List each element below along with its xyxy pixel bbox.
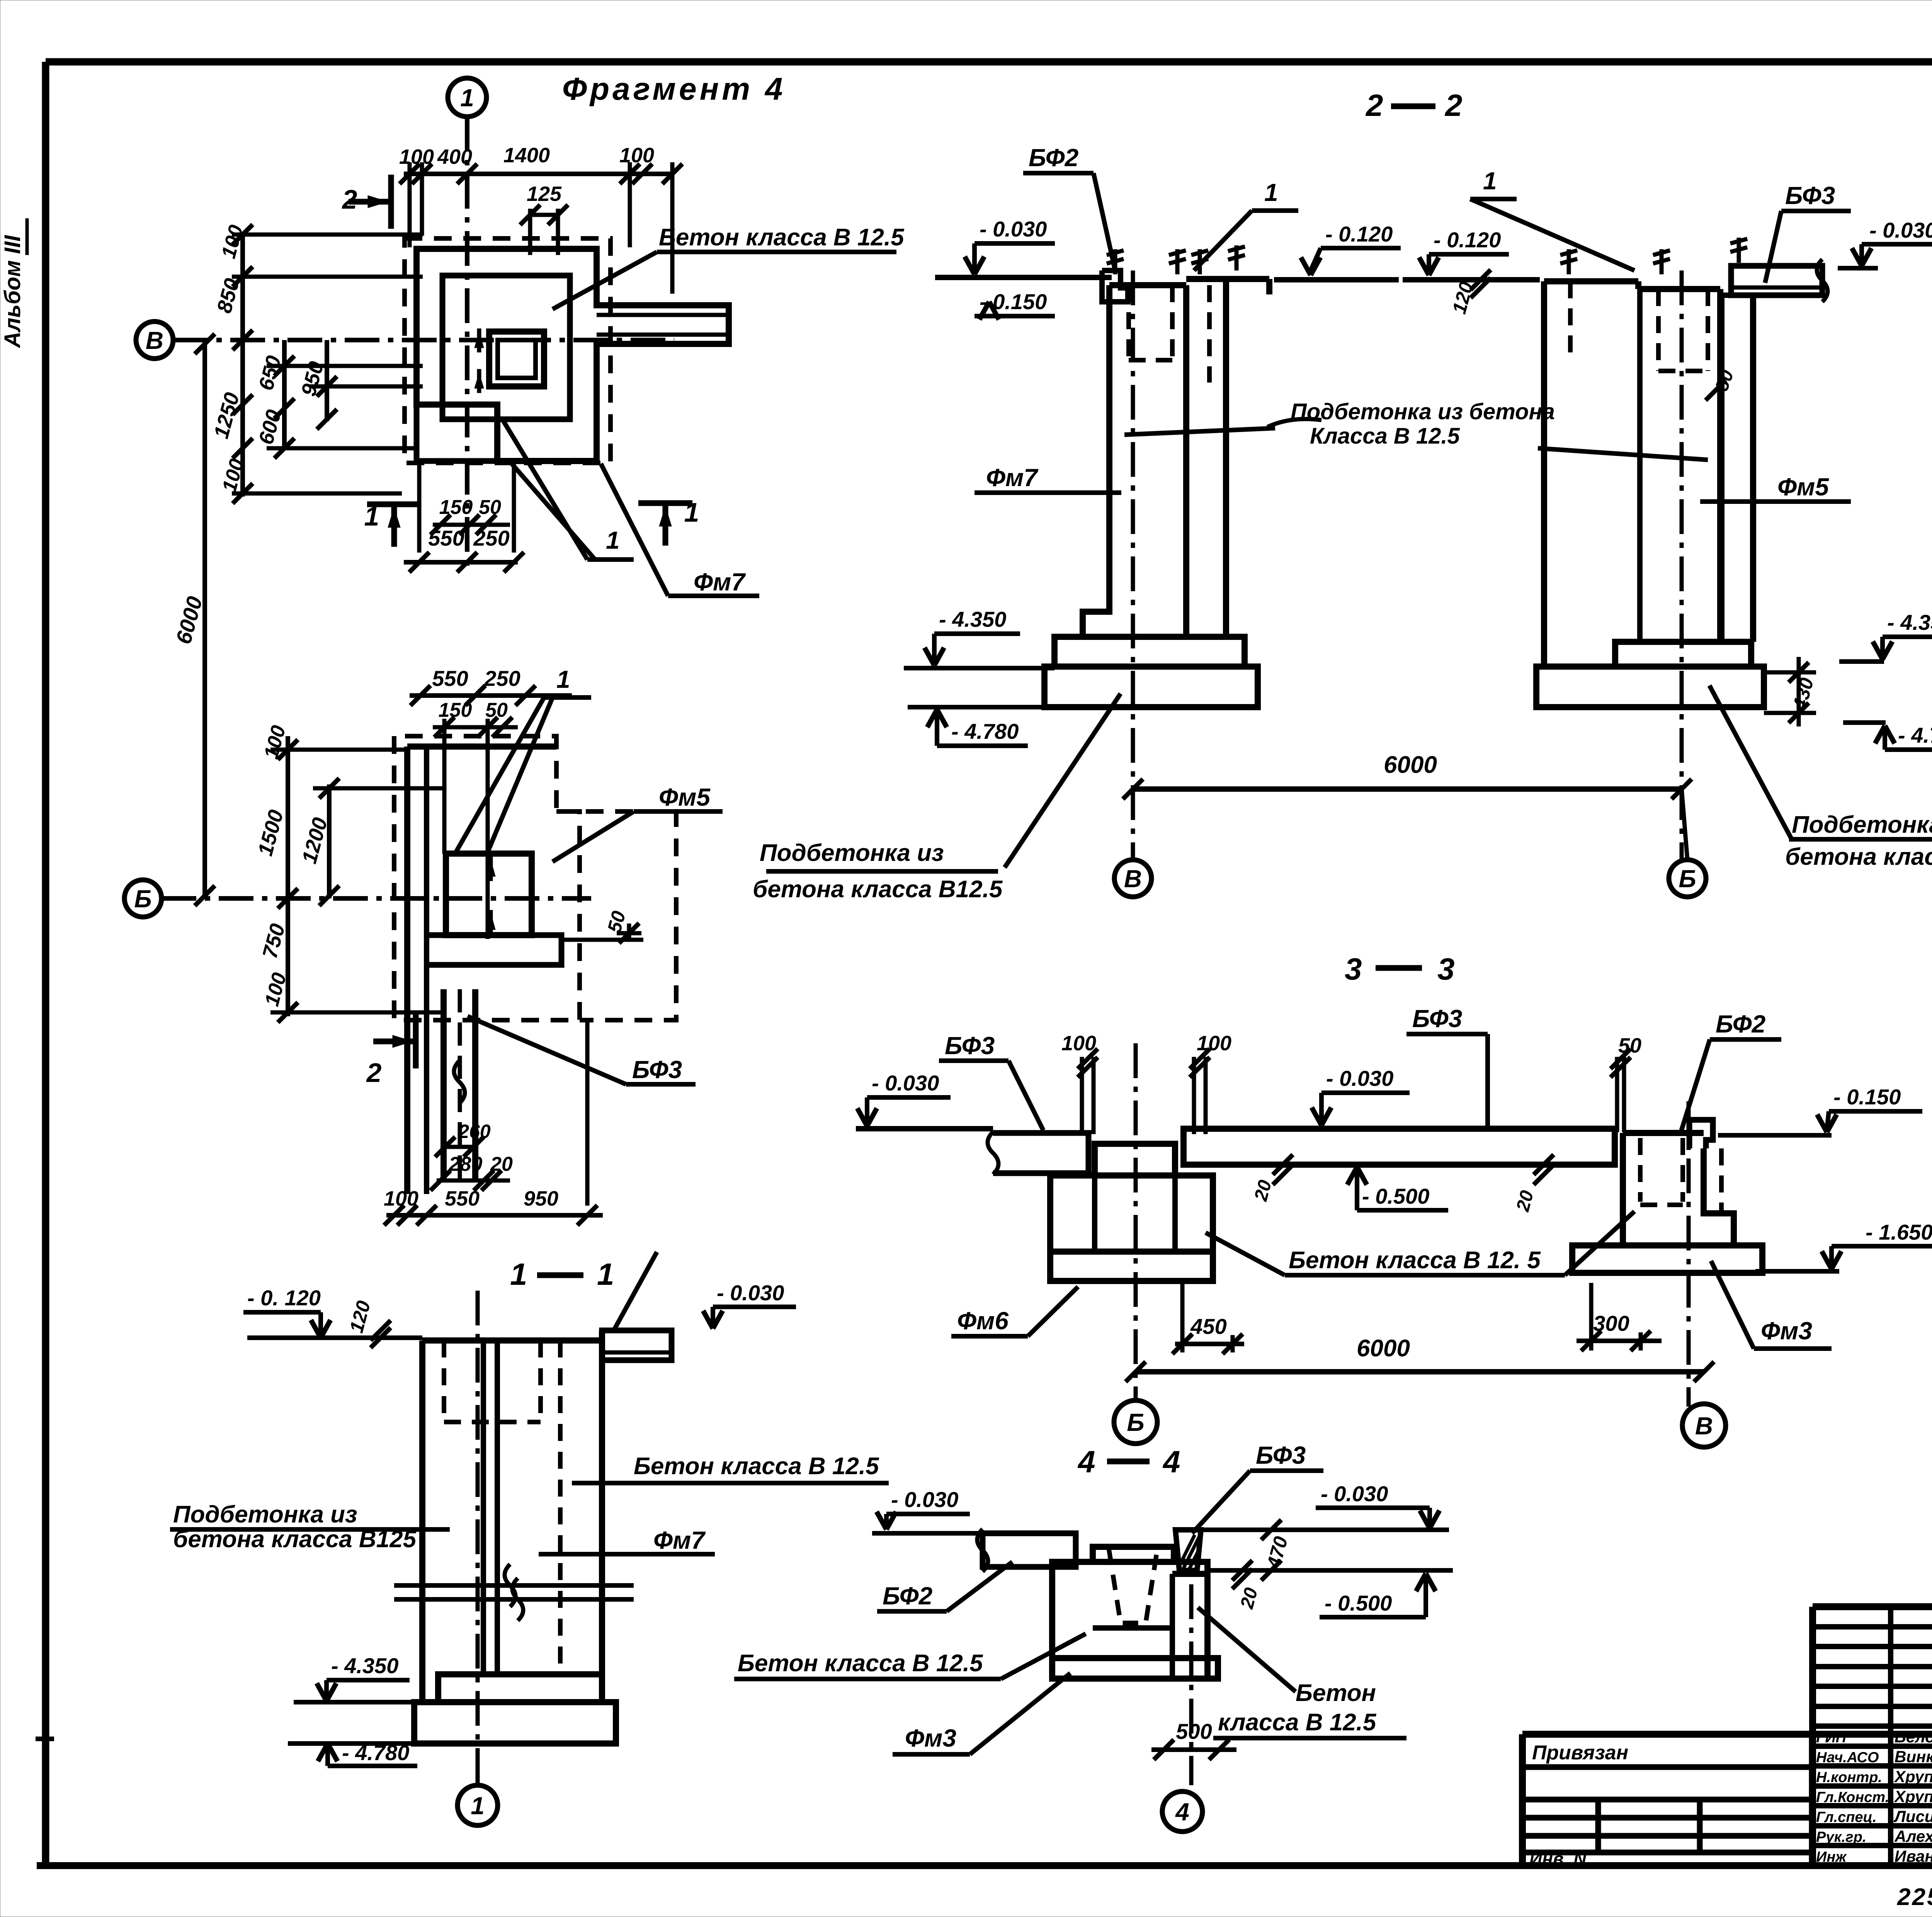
inner rect Fm7 (442, 276, 570, 419)
svg-text:150: 150 (439, 496, 473, 519)
svg-text:БФ2: БФ2 (1716, 1010, 1765, 1038)
svg-text:- 1.650: - 1.650 (1866, 1220, 1932, 1244)
svg-text:1: 1 (606, 526, 620, 554)
svg-text:Инв. N: Инв. N (1529, 1849, 1587, 1869)
svg-text:Н.контр.: Н.контр. (1816, 1769, 1882, 1786)
svg-text:Б: Б (1127, 1408, 1144, 1436)
axis circle V bottom 2-2 (1114, 860, 1151, 897)
svg-text:250: 250 (473, 526, 509, 550)
svg-text:6000: 6000 (1357, 1335, 1410, 1362)
svg-text:4: 4 (1077, 1444, 1095, 1479)
footing left 2-2 (1054, 637, 1245, 667)
socket dashed right (1656, 289, 1661, 371)
svg-text:Алехова: Алехова (1894, 1827, 1932, 1846)
svg-text:Класса В 12.5: Класса В 12.5 (1310, 424, 1460, 449)
svg-text:Хрупало: Хрупало (1894, 1767, 1932, 1786)
svg-text:- 0.030: - 0.030 (980, 217, 1047, 241)
svg-text:Винклер: Винклер (1895, 1748, 1932, 1766)
axis circle V left (136, 321, 173, 359)
svg-text:БФ3: БФ3 (1256, 1441, 1306, 1469)
svg-text:Бетон класса В 12. 5: Бетон класса В 12. 5 (1289, 1247, 1541, 1274)
svg-text:Бетон класса В 12.5: Бетон класса В 12.5 (659, 224, 905, 251)
axis circle V 3-3 (1682, 1404, 1726, 1447)
axis circle 1 top (448, 78, 486, 117)
leader bottom-left label to footing (1005, 694, 1121, 867)
svg-text:- 0.030: - 0.030 (872, 1071, 939, 1095)
svg-text:Фм6: Фм6 (957, 1307, 1009, 1335)
section marker 1 bottom-left (367, 502, 421, 507)
svg-text:класса В 12.5: класса В 12.5 (1218, 1709, 1377, 1736)
svg-text:2: 2 (366, 1058, 382, 1088)
svg-text:280: 280 (449, 1153, 483, 1175)
svg-text:100: 100 (1197, 1032, 1231, 1055)
leader BF2 top (diagonal) (614, 1252, 657, 1329)
svg-text:6000: 6000 (1384, 752, 1437, 778)
section marker 1 right (638, 500, 692, 506)
svg-text:250: 250 (484, 666, 520, 691)
rebar anchors top (1175, 249, 1180, 274)
svg-text:Подбетонка из: Подбетонка из (1792, 811, 1932, 838)
svg-text:- 0.030: - 0.030 (1321, 1482, 1388, 1506)
svg-text:Гл.Конст.: Гл.Конст. (1816, 1789, 1889, 1806)
svg-text:50: 50 (1618, 1034, 1641, 1057)
title block: central table (1813, 1603, 1932, 1610)
svg-text:В: В (1124, 865, 1142, 893)
left slab 3-3 (993, 1133, 1088, 1173)
svg-text:- 4.350: - 4.350 (1887, 610, 1932, 634)
lower step rect (417, 405, 497, 461)
svg-text:550: 550 (428, 526, 464, 550)
center label underline wavy (1267, 419, 1321, 427)
svg-text:3: 3 (1345, 952, 1362, 986)
rebar anchors right (1567, 249, 1571, 274)
svg-text:- 0.030: - 0.030 (1326, 1066, 1393, 1090)
central pier 3-3 (1095, 1144, 1175, 1175)
svg-text:4: 4 (1162, 1444, 1180, 1479)
footing right 2-2 (1615, 642, 1751, 667)
axis line B horizontal (162, 896, 591, 901)
axis dash-dot (476, 1291, 480, 1784)
svg-text:550: 550 (432, 666, 468, 691)
BF2 beam end cross-section (1102, 270, 1128, 302)
svg-text:Фм7: Фм7 (653, 1526, 706, 1554)
plan fragment 4: dashed outer (405, 238, 611, 463)
svg-text:- 4.780: - 4.780 (1898, 723, 1932, 747)
svg-text:4: 4 (1175, 1798, 1189, 1826)
svg-text:1: 1 (1483, 167, 1497, 195)
svg-text:Фм5: Фм5 (1777, 473, 1829, 501)
axis dash-dot right (1680, 270, 1684, 860)
svg-text:1: 1 (510, 1257, 527, 1291)
BF3 beam right 2-2 (1731, 266, 1822, 295)
left frame tick (36, 1737, 54, 1741)
svg-text:бетона класса В12.5: бетона класса В12.5 (1785, 844, 1932, 870)
svg-text:В: В (146, 327, 163, 354)
svg-text:Фм3: Фм3 (905, 1724, 956, 1752)
svg-text:1400: 1400 (503, 144, 550, 167)
axis line 1 vertical (465, 117, 469, 572)
footing 1-1 (438, 1674, 602, 1702)
svg-text:50: 50 (479, 496, 501, 519)
svg-text:1: 1 (364, 501, 379, 531)
svg-text:Хрупало: Хрупало (1894, 1788, 1932, 1806)
svg-text:- 0.120: - 0.120 (1434, 228, 1501, 252)
axis dash-dot 4 (1189, 1584, 1194, 1785)
rebar cross marks (477, 328, 481, 352)
svg-text:Рук.гр.: Рук.гр. (1816, 1829, 1866, 1846)
right foundation 2-2 (1541, 281, 1547, 667)
inner dashed pocket (556, 811, 676, 1020)
border frame (46, 58, 1932, 66)
svg-text:Б: Б (1679, 865, 1696, 893)
central column (446, 854, 532, 935)
axis line V horizontal (173, 338, 674, 342)
inner column square (489, 332, 544, 386)
left dim lines (240, 232, 245, 497)
axis circle B bottom 2-2 (1669, 860, 1706, 897)
svg-text:1: 1 (471, 1792, 485, 1820)
left foundation column 2-2 (1083, 285, 1109, 637)
svg-text:450: 450 (1190, 1314, 1226, 1339)
svg-text:Подбетонка из: Подбетонка из (760, 840, 944, 866)
svg-text:БФ2: БФ2 (883, 1582, 932, 1610)
axis dash-dot V 3-3 (1687, 1101, 1691, 1407)
svg-text:БФ3: БФ3 (945, 1032, 995, 1060)
svg-text:- 0.500: - 0.500 (1362, 1184, 1429, 1208)
svg-text:Гл.спец.: Гл.спец. (1816, 1809, 1877, 1825)
section marker 2 bottom (413, 1014, 419, 1068)
svg-text:В: В (1695, 1412, 1713, 1440)
svg-text:2: 2 (342, 184, 357, 214)
svg-text:22529-03: 22529-03 (1897, 1884, 1932, 1910)
svg-text:Привязан: Привязан (1532, 1742, 1628, 1764)
svg-text:- 0.030: - 0.030 (717, 1281, 784, 1305)
svg-text:- 0.120: - 0.120 (1325, 222, 1393, 246)
svg-text:1: 1 (460, 84, 474, 112)
svg-text:Фм7: Фм7 (694, 568, 746, 596)
svg-text:БФ3: БФ3 (1785, 182, 1835, 209)
svg-text:1: 1 (556, 665, 570, 693)
solid pocket outline (427, 935, 561, 965)
svg-text:2: 2 (1444, 88, 1463, 122)
svg-text:Подбетонка из: Подбетонка из (173, 1501, 357, 1528)
title block: small left table (1522, 1731, 1932, 1738)
svg-text:- 0.150: - 0.150 (1833, 1085, 1901, 1109)
svg-text:Фм3: Фм3 (1761, 1317, 1812, 1345)
svg-text:950: 950 (524, 1187, 558, 1210)
axis circle B 3-3 (1114, 1400, 1157, 1444)
BF3 hatched beam 4-4 (1175, 1530, 1201, 1570)
central foundation 4-4 (1052, 1562, 1207, 1679)
svg-text:125: 125 (527, 182, 562, 206)
axis dash-dot B 3-3 (1134, 1043, 1138, 1401)
svg-text:550: 550 (445, 1187, 480, 1210)
svg-text:Подбетонка из бетона: Подбетонка из бетона (1291, 399, 1555, 424)
dashed boundary (394, 736, 580, 1020)
svg-text:Лисичкин: Лисичкин (1893, 1807, 1932, 1825)
svg-text:1: 1 (1264, 179, 1278, 206)
svg-text:бетона класса В125: бетона класса В125 (173, 1526, 417, 1553)
svg-text:2: 2 (1365, 88, 1383, 122)
beam double lines (597, 313, 729, 317)
axis circle 4 bottom (1162, 1791, 1202, 1832)
svg-text:Б: Б (134, 885, 151, 913)
svg-text:- 4.350: - 4.350 (939, 607, 1006, 631)
beam right 1-1 (602, 1330, 672, 1360)
svg-text:- 0.500: - 0.500 (1325, 1591, 1392, 1615)
svg-text:500: 500 (1176, 1719, 1212, 1744)
svg-text:Бетон класса В 12.5: Бетон класса В 12.5 (634, 1453, 879, 1480)
svg-text:1: 1 (597, 1257, 614, 1291)
break marks (394, 1583, 634, 1588)
axis circle B left (124, 880, 162, 917)
plan mid-left: wall strip (404, 747, 410, 1194)
svg-text:Инж: Инж (1816, 1849, 1847, 1865)
svg-text:260: 260 (458, 1121, 491, 1142)
svg-text:- 4.780: - 4.780 (951, 719, 1019, 743)
svg-text:Нач.АСО: Нач.АСО (1816, 1750, 1879, 1766)
left beam 4-4 (983, 1533, 1076, 1567)
svg-text:Бетон: Бетон (1296, 1680, 1376, 1706)
svg-text:1: 1 (684, 497, 699, 527)
svg-text:ГИП: ГИП (1816, 1730, 1847, 1746)
column 1-1 (419, 1340, 425, 1702)
main beam 3-3 (1184, 1129, 1615, 1165)
lower strip BF3 (440, 989, 447, 1182)
svg-text:- 4.350: - 4.350 (331, 1653, 398, 1678)
svg-text:БФ2: БФ2 (1029, 144, 1078, 172)
svg-text:Белоус: Белоус (1895, 1728, 1932, 1746)
svg-text:Иванов: Иванов (1895, 1847, 1932, 1865)
svg-text:Фм5: Фм5 (659, 783, 711, 811)
column cross marks (489, 856, 493, 881)
svg-text:Фм7: Фм7 (986, 464, 1039, 492)
svg-text:- 0.030: - 0.030 (1869, 218, 1932, 242)
section marker 2 right arrow (388, 175, 394, 229)
svg-text:бетона класса В12.5: бетона класса В12.5 (753, 876, 1003, 903)
svg-text:- 0.030: - 0.030 (891, 1487, 958, 1512)
svg-text:БФ3: БФ3 (1412, 1005, 1462, 1032)
svg-text:Фрагмент 4: Фрагмент 4 (562, 71, 786, 107)
svg-text:Альбом III: Альбом III (0, 235, 25, 349)
svg-text:БФ3: БФ3 (632, 1056, 682, 1084)
svg-text:400: 400 (437, 145, 472, 168)
socket dashed left (1126, 285, 1131, 360)
svg-text:3: 3 (1437, 952, 1455, 986)
axis dash-dot left (1131, 270, 1135, 860)
svg-text:Бетон класса В 12.5: Бетон класса В 12.5 (738, 1650, 983, 1677)
svg-text:100: 100 (619, 144, 654, 167)
svg-text:100: 100 (1061, 1032, 1096, 1055)
svg-text:- 0. 120: - 0. 120 (247, 1286, 321, 1310)
plan fragment 4: solid outline (417, 249, 729, 461)
right pier 3-3 (1620, 1133, 1626, 1245)
axis circle 1 bottom (457, 1785, 498, 1825)
BF2 beam right 3-3 (1689, 1120, 1713, 1148)
